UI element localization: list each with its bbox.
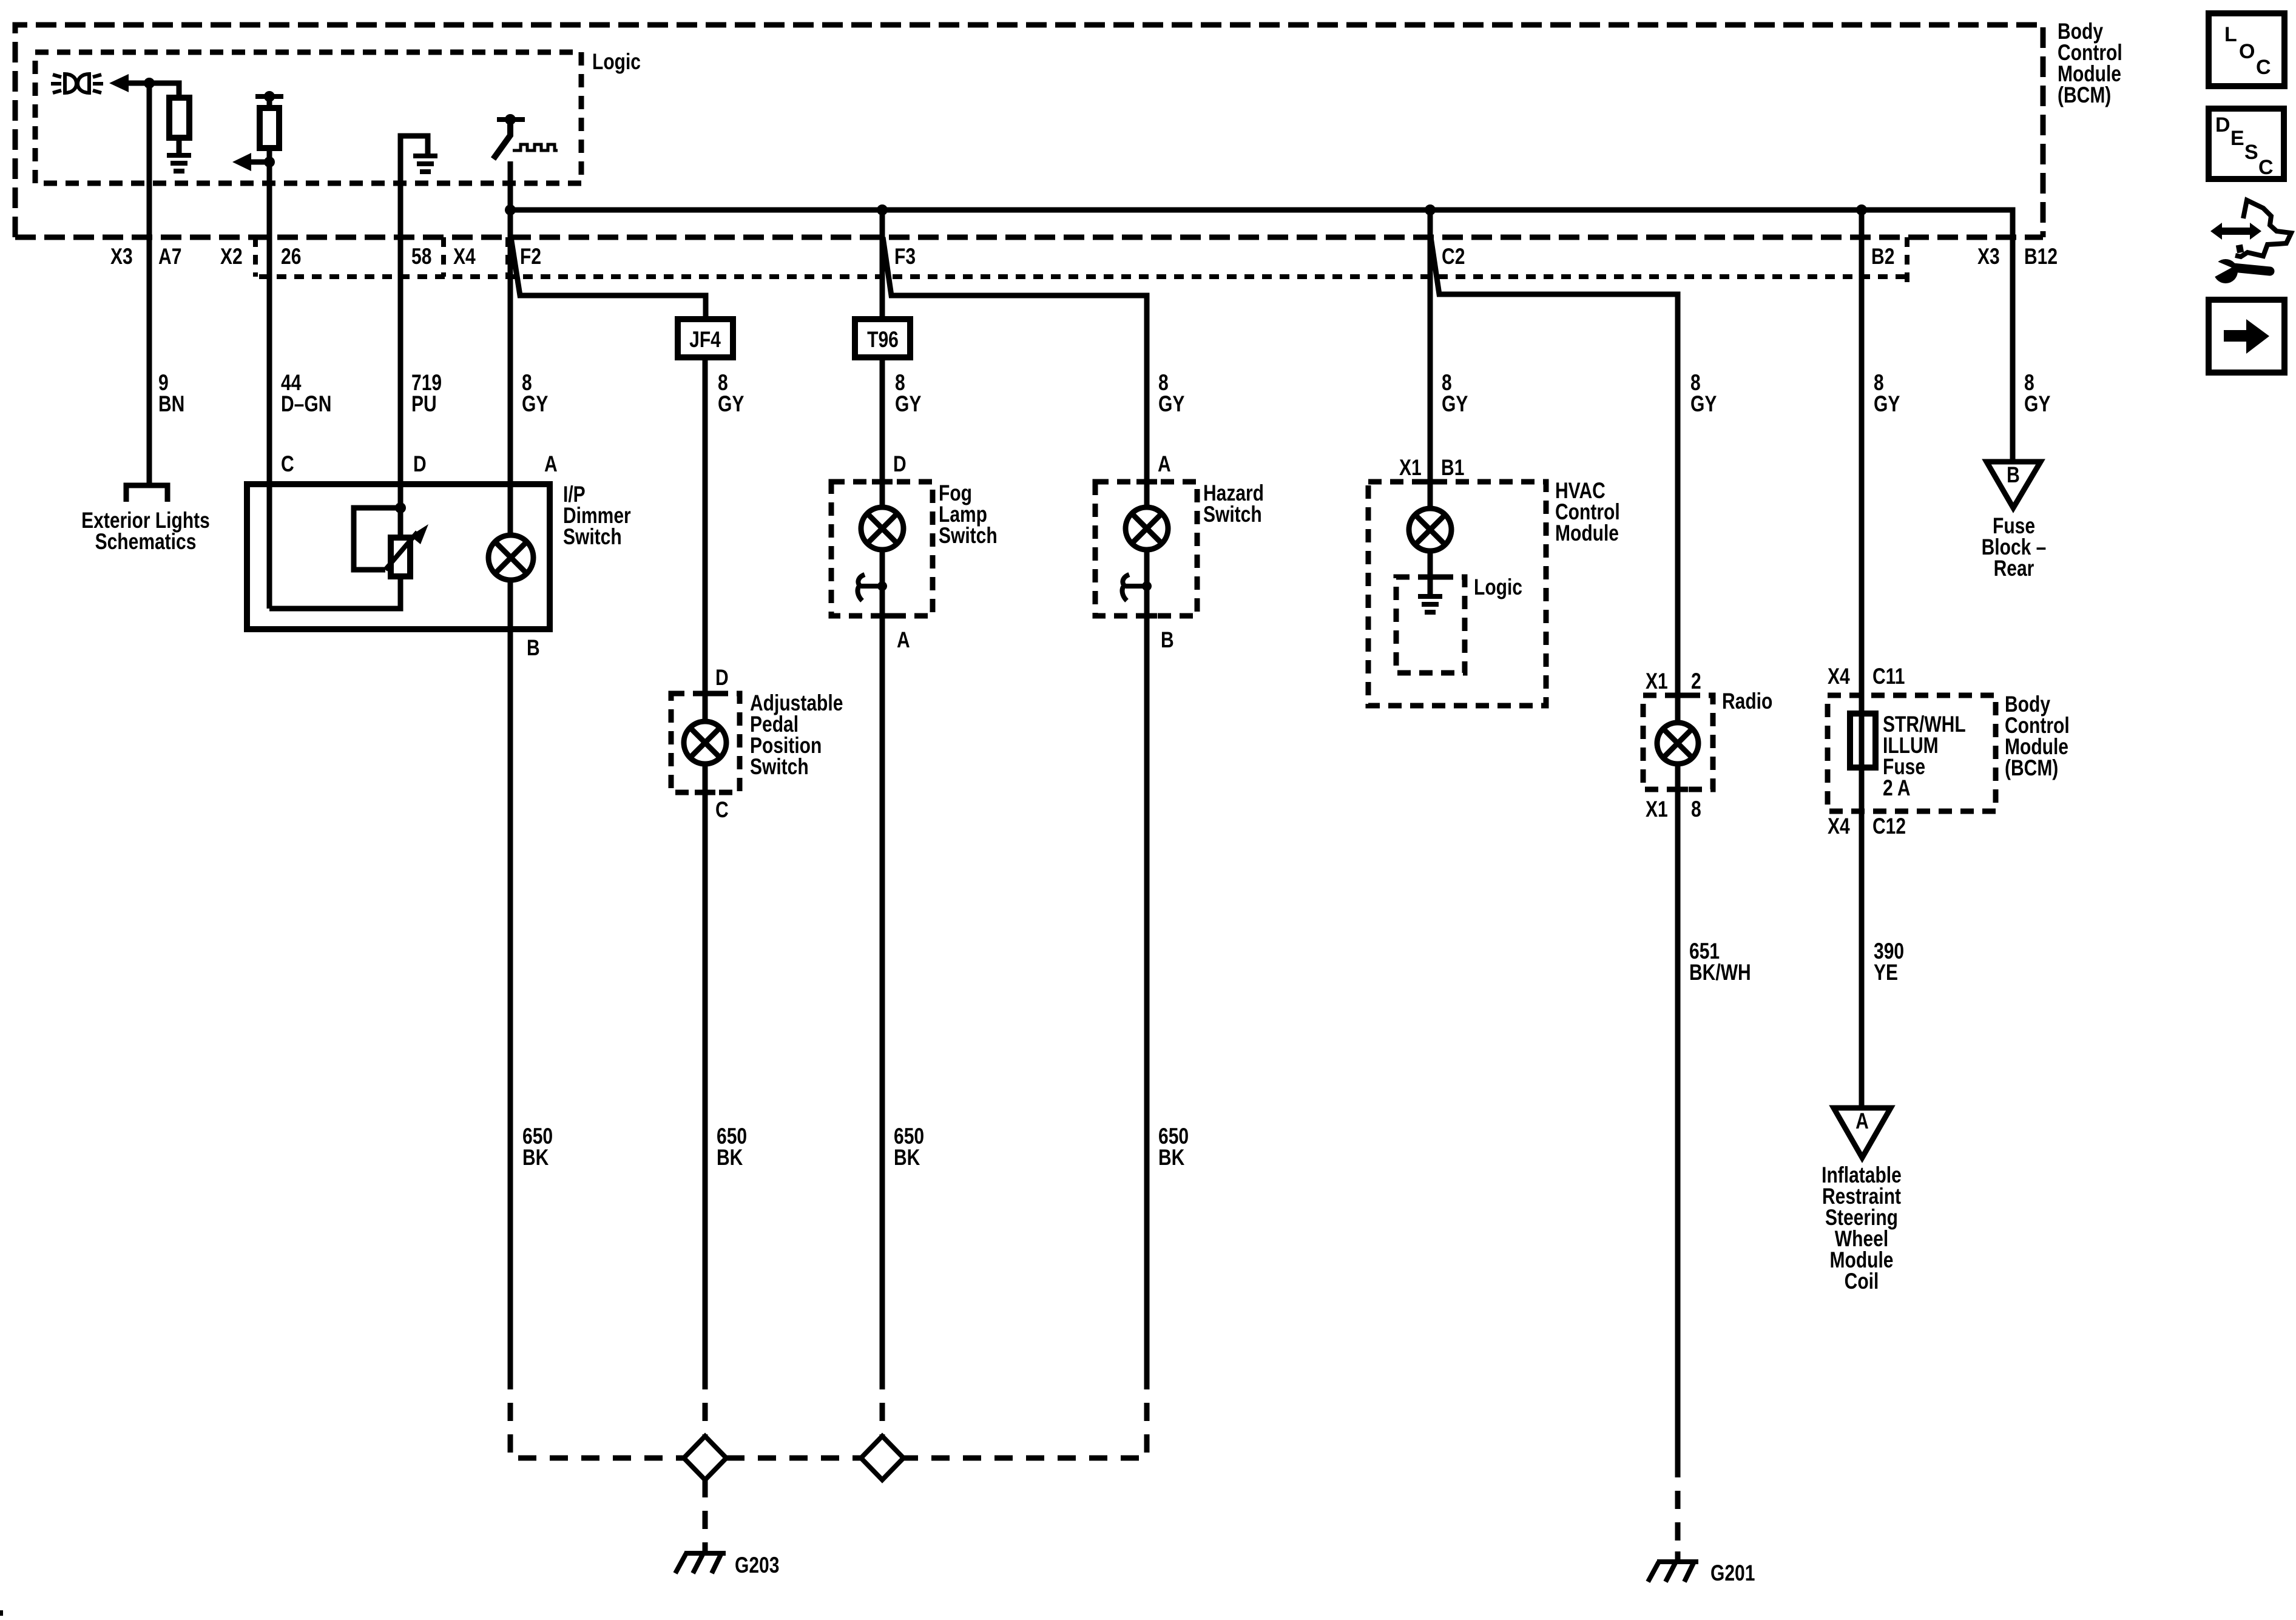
- wire 719 PU inside dimmer: [398, 484, 403, 538]
- PWM dimmer output switch: [493, 120, 558, 159]
- svg-text:B2: B2: [1871, 243, 1894, 269]
- connector separator X2: [253, 237, 258, 277]
- svg-text:A7: A7: [158, 243, 181, 269]
- wire 8 GY F2 down: [508, 210, 513, 535]
- svg-text:B: B: [527, 635, 540, 660]
- connector band lower line: [259, 274, 1905, 279]
- junction dot F2: [505, 204, 516, 215]
- lamp fog lamp switch: [861, 507, 903, 550]
- wire 44 D-GN: [267, 162, 272, 609]
- svg-text:BK: BK: [717, 1144, 743, 1170]
- junction dot: [1142, 581, 1152, 591]
- fuse STR/WHL ILLUM 2A: [1850, 714, 1876, 768]
- ground (BCM internal, R1): [167, 155, 191, 171]
- connector separator 58/X4: [441, 237, 446, 277]
- svg-text:X2: X2: [220, 243, 243, 269]
- svg-text:X3: X3: [1977, 243, 2000, 269]
- wire 651 BK/WH dashed: [1675, 1459, 1681, 1557]
- connector separator X4/F2: [505, 237, 510, 277]
- tick APP top pin D: [695, 691, 715, 697]
- Logic dashed box (HVAC internal): [1396, 577, 1465, 673]
- wire 8 GY JF4 down: [703, 357, 708, 721]
- junction dot B2: [1856, 204, 1867, 215]
- Hazard Switch box: [1095, 482, 1197, 616]
- tick fog top pin D: [872, 479, 893, 485]
- off-page connector bracket (Exterior Lights): [126, 485, 167, 502]
- svg-text:BN: BN: [158, 391, 184, 416]
- junction dot PWM switch: [505, 114, 516, 125]
- wire headlamp feed: [127, 83, 179, 99]
- lamp radio illumination: [1657, 723, 1698, 764]
- connector band upper line: [15, 235, 2043, 240]
- tick HVAC logic box: [1420, 575, 1440, 580]
- wire hazard internal: [1144, 550, 1150, 616]
- svg-text:PU: PU: [411, 391, 437, 416]
- wire 8 GY C2 down: [1428, 210, 1433, 508]
- resistor R2: [260, 108, 279, 148]
- DESC icon box: [2209, 109, 2284, 179]
- junction dot R2 top: [264, 91, 275, 102]
- tick hazard top pin A: [1136, 479, 1157, 485]
- svg-text:Switch: Switch: [1203, 501, 1262, 527]
- splice connector (G203 branch 1): [684, 1436, 726, 1480]
- svg-text:G203: G203: [735, 1552, 779, 1578]
- wire C2 jog to radio branch: [1431, 237, 1678, 723]
- svg-text:C: C: [281, 451, 294, 476]
- svg-text:B: B: [1161, 627, 1174, 652]
- svg-text:BK/WH: BK/WH: [1689, 959, 1751, 985]
- wire 719 PU hook to ground: [400, 136, 428, 154]
- junction dot rheostat top: [395, 502, 406, 513]
- junction dot R2 output: [264, 157, 275, 167]
- svg-text:B: B: [2007, 462, 2020, 487]
- rheostat body: [391, 538, 410, 576]
- triangle connector A (SIR coil): [1834, 1108, 1891, 1158]
- wire R1 to ground: [177, 138, 182, 155]
- tick hazard bottom pin B: [1136, 613, 1157, 619]
- connector separator B2: [1905, 237, 1909, 283]
- svg-text:X1: X1: [1646, 668, 1668, 694]
- svg-text:2 A: 2 A: [1883, 775, 1911, 800]
- wire rheostat loop: [354, 508, 400, 570]
- Logic dashed box (BCM internal): [35, 52, 581, 183]
- LOC icon box: [2209, 13, 2284, 86]
- svg-text:Module: Module: [1555, 520, 1619, 545]
- wire 8 GY B2 down: [1859, 210, 1865, 1108]
- tick fog bottom pin A: [872, 613, 893, 619]
- svg-text:C2: C2: [1442, 243, 1465, 269]
- wire HVAC lamp to ground: [1428, 551, 1433, 596]
- splice connector (G203 branch 2): [861, 1436, 903, 1480]
- wire 650 BK F2 dashed: [510, 1371, 684, 1458]
- svg-text:JF4: JF4: [689, 326, 721, 352]
- lamp hazard switch: [1126, 507, 1168, 550]
- wire 719 PU: [398, 136, 403, 484]
- svg-text:A: A: [1158, 451, 1171, 476]
- svg-text:C: C: [2258, 156, 2274, 179]
- svg-text:A: A: [544, 451, 558, 476]
- dashed splice bus segment: [726, 1456, 861, 1461]
- junction dot: [877, 581, 887, 591]
- svg-text:Coil: Coil: [1845, 1268, 1879, 1294]
- lamp adjustable pedal position switch: [684, 721, 726, 764]
- svg-text:Logic: Logic: [592, 49, 641, 74]
- ground (BCM internal, 719 PU): [413, 156, 437, 172]
- svg-text:G201: G201: [1710, 1560, 1755, 1585]
- diagnostic icon: outline: [2235, 200, 2291, 257]
- wire 650 BK T96 dashed: [880, 1371, 885, 1437]
- HVAC Control Module box: [1368, 482, 1546, 706]
- svg-text:Logic: Logic: [1474, 574, 1522, 599]
- resistor R1: [169, 98, 189, 138]
- junction dot C2: [1425, 204, 1436, 215]
- wire stub G203: [703, 1543, 708, 1556]
- Adjustable Pedal Position Switch box: [671, 694, 740, 792]
- svg-text:X4: X4: [1828, 813, 1850, 839]
- svg-text:D: D: [715, 664, 729, 690]
- svg-text:BK: BK: [894, 1144, 920, 1170]
- lamp HVAC illumination: [1409, 508, 1451, 551]
- svg-text:F3: F3: [894, 243, 916, 269]
- svg-text:GY: GY: [1442, 391, 1468, 416]
- svg-text:D–GN: D–GN: [281, 391, 331, 416]
- wire rheostat wiper down: [269, 576, 400, 609]
- svg-text:GY: GY: [1158, 391, 1184, 416]
- svg-text:S: S: [2244, 141, 2258, 164]
- svg-text:X1: X1: [1646, 796, 1668, 822]
- Radio box: [1643, 695, 1713, 789]
- tick HVAC pin B1: [1420, 479, 1440, 485]
- wire F2 jog to JF4 branch: [511, 237, 706, 319]
- svg-text:O: O: [2239, 40, 2255, 63]
- svg-text:58: 58: [411, 243, 431, 269]
- svg-text:BK: BK: [522, 1144, 549, 1170]
- wire 650 BK hazard dashed: [903, 1371, 1147, 1458]
- svg-text:B12: B12: [2024, 243, 2058, 269]
- wire R2 stub: [267, 96, 272, 108]
- svg-text:L: L: [2224, 23, 2237, 46]
- svg-text:C12: C12: [1872, 813, 1906, 839]
- tick radio top pin 2: [1667, 693, 1688, 698]
- forward arrow: [2224, 319, 2269, 354]
- svg-text:GY: GY: [1690, 391, 1717, 416]
- tick APP bottom pin C: [695, 790, 715, 795]
- wire 651 BK/WH down: [1675, 764, 1681, 1459]
- svg-text:D: D: [2215, 113, 2230, 137]
- wire stub G201: [1675, 1551, 1681, 1564]
- wire 650 BK T96 down: [880, 616, 885, 1371]
- junction block T96: [855, 319, 910, 357]
- svg-text:GY: GY: [895, 391, 921, 416]
- svg-text:Radio: Radio: [1722, 688, 1772, 714]
- arrow output R2: [232, 153, 251, 171]
- svg-text:GY: GY: [522, 391, 548, 416]
- svg-text:8: 8: [1691, 796, 1701, 822]
- svg-text:C: C: [715, 797, 729, 822]
- junction dot F3: [877, 204, 888, 215]
- Body Control Module dashed box (fuse): [1828, 695, 1996, 811]
- Body Control Module (BCM) dashed box: [15, 25, 2043, 237]
- arrow to headlamp (exterior lights feed): [109, 74, 129, 92]
- svg-text:X4: X4: [1828, 663, 1850, 689]
- page artifact dot: [0, 1610, 3, 1616]
- svg-text:BK: BK: [1158, 1144, 1184, 1170]
- headlamp icon: [51, 74, 103, 93]
- wire 650 BK F2 down: [508, 580, 513, 1371]
- wire R2 bottom: [267, 148, 272, 162]
- svg-text:X4: X4: [453, 243, 476, 269]
- svg-text:GY: GY: [1874, 391, 1900, 416]
- svg-text:X3: X3: [110, 243, 133, 269]
- svg-text:2: 2: [1691, 668, 1701, 694]
- svg-text:(BCM): (BCM): [2058, 82, 2111, 107]
- wire 650 BK hazard down: [1144, 616, 1150, 1371]
- svg-text:GY: GY: [718, 391, 744, 416]
- tick radio bottom pin 8: [1667, 787, 1688, 792]
- wire 9 BN (A7 to Exterior Lights): [147, 83, 152, 483]
- svg-text:D: D: [413, 451, 427, 476]
- ground G201: [1648, 1562, 1698, 1582]
- diagnostic icon: double arrow: [2210, 223, 2261, 240]
- svg-text:T96: T96: [867, 326, 899, 352]
- svg-text:Schematics: Schematics: [95, 528, 197, 554]
- svg-text:26: 26: [281, 243, 301, 269]
- wire F3 jog to hazard branch: [883, 237, 1147, 507]
- svg-text:A: A: [897, 627, 910, 652]
- Fog Lamp Switch box: [831, 482, 933, 616]
- svg-text:A: A: [1855, 1108, 1869, 1133]
- wire 8 GY F3 down: [880, 210, 885, 319]
- svg-text:Switch: Switch: [939, 522, 998, 548]
- ground (HVAC internal): [1418, 596, 1442, 612]
- wire to G203 dashed: [703, 1479, 708, 1551]
- junction dot wire A7: [144, 78, 155, 89]
- svg-text:F2: F2: [520, 243, 541, 269]
- diagnostic icon: tick: [2237, 248, 2243, 249]
- svg-text:Rear: Rear: [1994, 555, 2034, 581]
- switch fog lamp (momentary): [858, 575, 882, 601]
- I/P Dimmer Switch box: [247, 484, 550, 629]
- resistor R2 top tee: [255, 94, 283, 99]
- svg-text:GY: GY: [2024, 391, 2050, 416]
- svg-text:D: D: [893, 451, 907, 476]
- svg-text:Switch: Switch: [563, 524, 622, 549]
- wire 650 BK JF4 down: [703, 764, 708, 1371]
- wire fog lamp internal: [880, 550, 885, 616]
- diagnostic icon: wrench: [2207, 257, 2270, 283]
- switch hazard (momentary): [1123, 575, 1147, 601]
- svg-text:E: E: [2230, 127, 2244, 150]
- svg-text:(BCM): (BCM): [2005, 755, 2058, 780]
- svg-text:X1: X1: [1399, 454, 1422, 480]
- svg-text:Switch: Switch: [750, 754, 809, 779]
- wire bus (BCM illumination outputs): [510, 161, 2013, 462]
- svg-text:C: C: [2256, 56, 2271, 79]
- rheostat arrow: [385, 532, 417, 570]
- svg-text:B1: B1: [1441, 454, 1464, 480]
- triangle connector B (fuse block rear): [1987, 462, 2041, 508]
- wire 650 BK JF4 dashed: [703, 1371, 708, 1437]
- junction block JF4: [678, 319, 733, 357]
- ground G203: [675, 1553, 726, 1573]
- lamp I/P dimmer illumination: [488, 535, 533, 580]
- svg-text:YE: YE: [1874, 959, 1898, 985]
- svg-text:C11: C11: [1872, 663, 1905, 689]
- forward arrow icon box: [2209, 300, 2284, 373]
- wire 8 GY T96 down: [880, 357, 885, 507]
